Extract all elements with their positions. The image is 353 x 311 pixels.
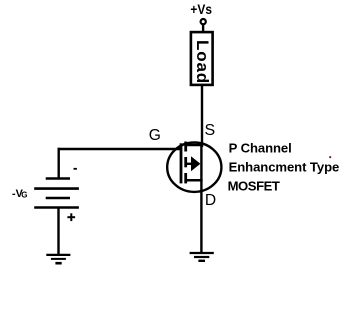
wire battery to ground: [57, 208, 59, 255]
terminal +Vs (open circle): [201, 19, 206, 24]
svg-text:G: G: [149, 127, 161, 144]
mosfet channel segment middle: [184, 157, 187, 167]
wire source connector inside mosfet: [185, 144, 203, 147]
svg-text:Enhancment Type: Enhancment Type: [229, 160, 340, 175]
ground (drain) bar 3: [198, 260, 205, 262]
svg-text:D: D: [205, 192, 216, 209]
wire terminal to load: [202, 24, 204, 32]
svg-text:Load: Load: [193, 40, 212, 84]
wire body stub: [186, 163, 192, 165]
svg-text:P Channel: P Channel: [229, 140, 292, 155]
ground (battery) bar 2: [51, 258, 66, 260]
mosfet gate bar: [180, 143, 183, 183]
battery VG plate negative top (short): [46, 177, 70, 180]
battery VG plate positive bottom (long): [34, 206, 79, 209]
wire drain connector inside mosfet: [185, 179, 203, 182]
svg-text:G: G: [21, 190, 27, 199]
ground (battery) bar 1: [46, 254, 70, 256]
mosfet Q1 body circle: [167, 143, 221, 192]
arrow p-channel (body arrow): [191, 156, 200, 171]
label plus (battery bottom): [67, 213, 75, 221]
label minus (battery top): [74, 168, 77, 170]
ground (drain) bar 1: [190, 252, 214, 254]
mosfet channel segment top: [184, 142, 187, 152]
label -VG: [12, 188, 28, 200]
svg-text:S: S: [205, 122, 216, 139]
battery VG plate negative (short): [46, 197, 70, 200]
svg-text:+Vs: +Vs: [190, 1, 212, 17]
mosfet channel segment bottom: [184, 173, 187, 183]
ground (drain) bar 2: [194, 256, 209, 258]
wire load to source: [201, 86, 203, 148]
wire gate corner vertical to battery: [58, 148, 60, 178]
resistor Load (load box): [191, 32, 213, 85]
wire gate horizontal: [58, 148, 182, 150]
battery VG plate positive (long): [34, 187, 79, 190]
wire internal source-drain vertical: [200, 144, 202, 182]
svg-text:MOSFET: MOSFET: [228, 179, 280, 194]
stray dot artifact: [329, 156, 331, 158]
ground (battery) bar 3: [55, 262, 61, 265]
wire drain to ground: [200, 179, 202, 253]
